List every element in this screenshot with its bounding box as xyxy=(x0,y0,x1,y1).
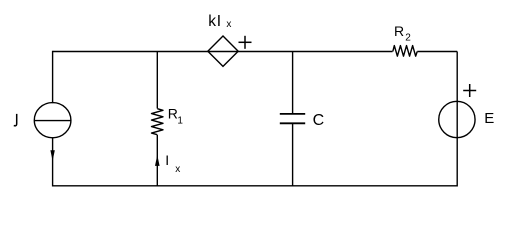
svg-text:E: E xyxy=(484,110,494,127)
wire through E source xyxy=(456,102,458,138)
wire top-middle segment xyxy=(238,51,393,53)
plus sign of kIx source xyxy=(239,36,252,49)
svg-text:I: I xyxy=(165,152,169,168)
wire through diamond xyxy=(208,51,238,53)
voltage source E xyxy=(439,101,475,137)
wire top-right segment xyxy=(417,51,457,53)
resistor R2 xyxy=(393,46,417,57)
svg-text:2: 2 xyxy=(405,33,411,44)
wire R1 branch lower xyxy=(156,135,158,187)
capacitor C xyxy=(280,114,305,123)
svg-text:x: x xyxy=(226,19,231,30)
wire top-left segment xyxy=(53,51,208,53)
label C xyxy=(313,112,325,129)
label J xyxy=(14,114,17,126)
label R2 xyxy=(394,23,411,44)
wire right upper xyxy=(456,52,458,102)
current direction arrow of J xyxy=(50,150,54,161)
wire R1 branch upper xyxy=(156,52,158,109)
resistor R1 xyxy=(152,109,164,135)
wire right lower xyxy=(456,138,458,187)
svg-text:x: x xyxy=(175,164,180,175)
wire left upper xyxy=(52,51,54,103)
svg-text:1: 1 xyxy=(177,115,183,126)
label E xyxy=(484,110,494,127)
svg-text:kI: kI xyxy=(208,13,222,30)
wire C branch lower xyxy=(292,123,294,186)
wire C branch upper xyxy=(292,52,294,115)
svg-text:R: R xyxy=(394,23,404,39)
label Ix xyxy=(165,152,180,175)
dependent source kIx (diamond) xyxy=(208,36,238,66)
current source J xyxy=(34,103,71,138)
wire bottom xyxy=(53,185,458,187)
wire left lower xyxy=(52,137,54,186)
plus sign of E xyxy=(463,84,476,97)
label kIx xyxy=(208,13,231,30)
label R1 xyxy=(168,105,184,126)
current arrow Ix xyxy=(155,155,160,166)
svg-text:C: C xyxy=(313,112,325,129)
